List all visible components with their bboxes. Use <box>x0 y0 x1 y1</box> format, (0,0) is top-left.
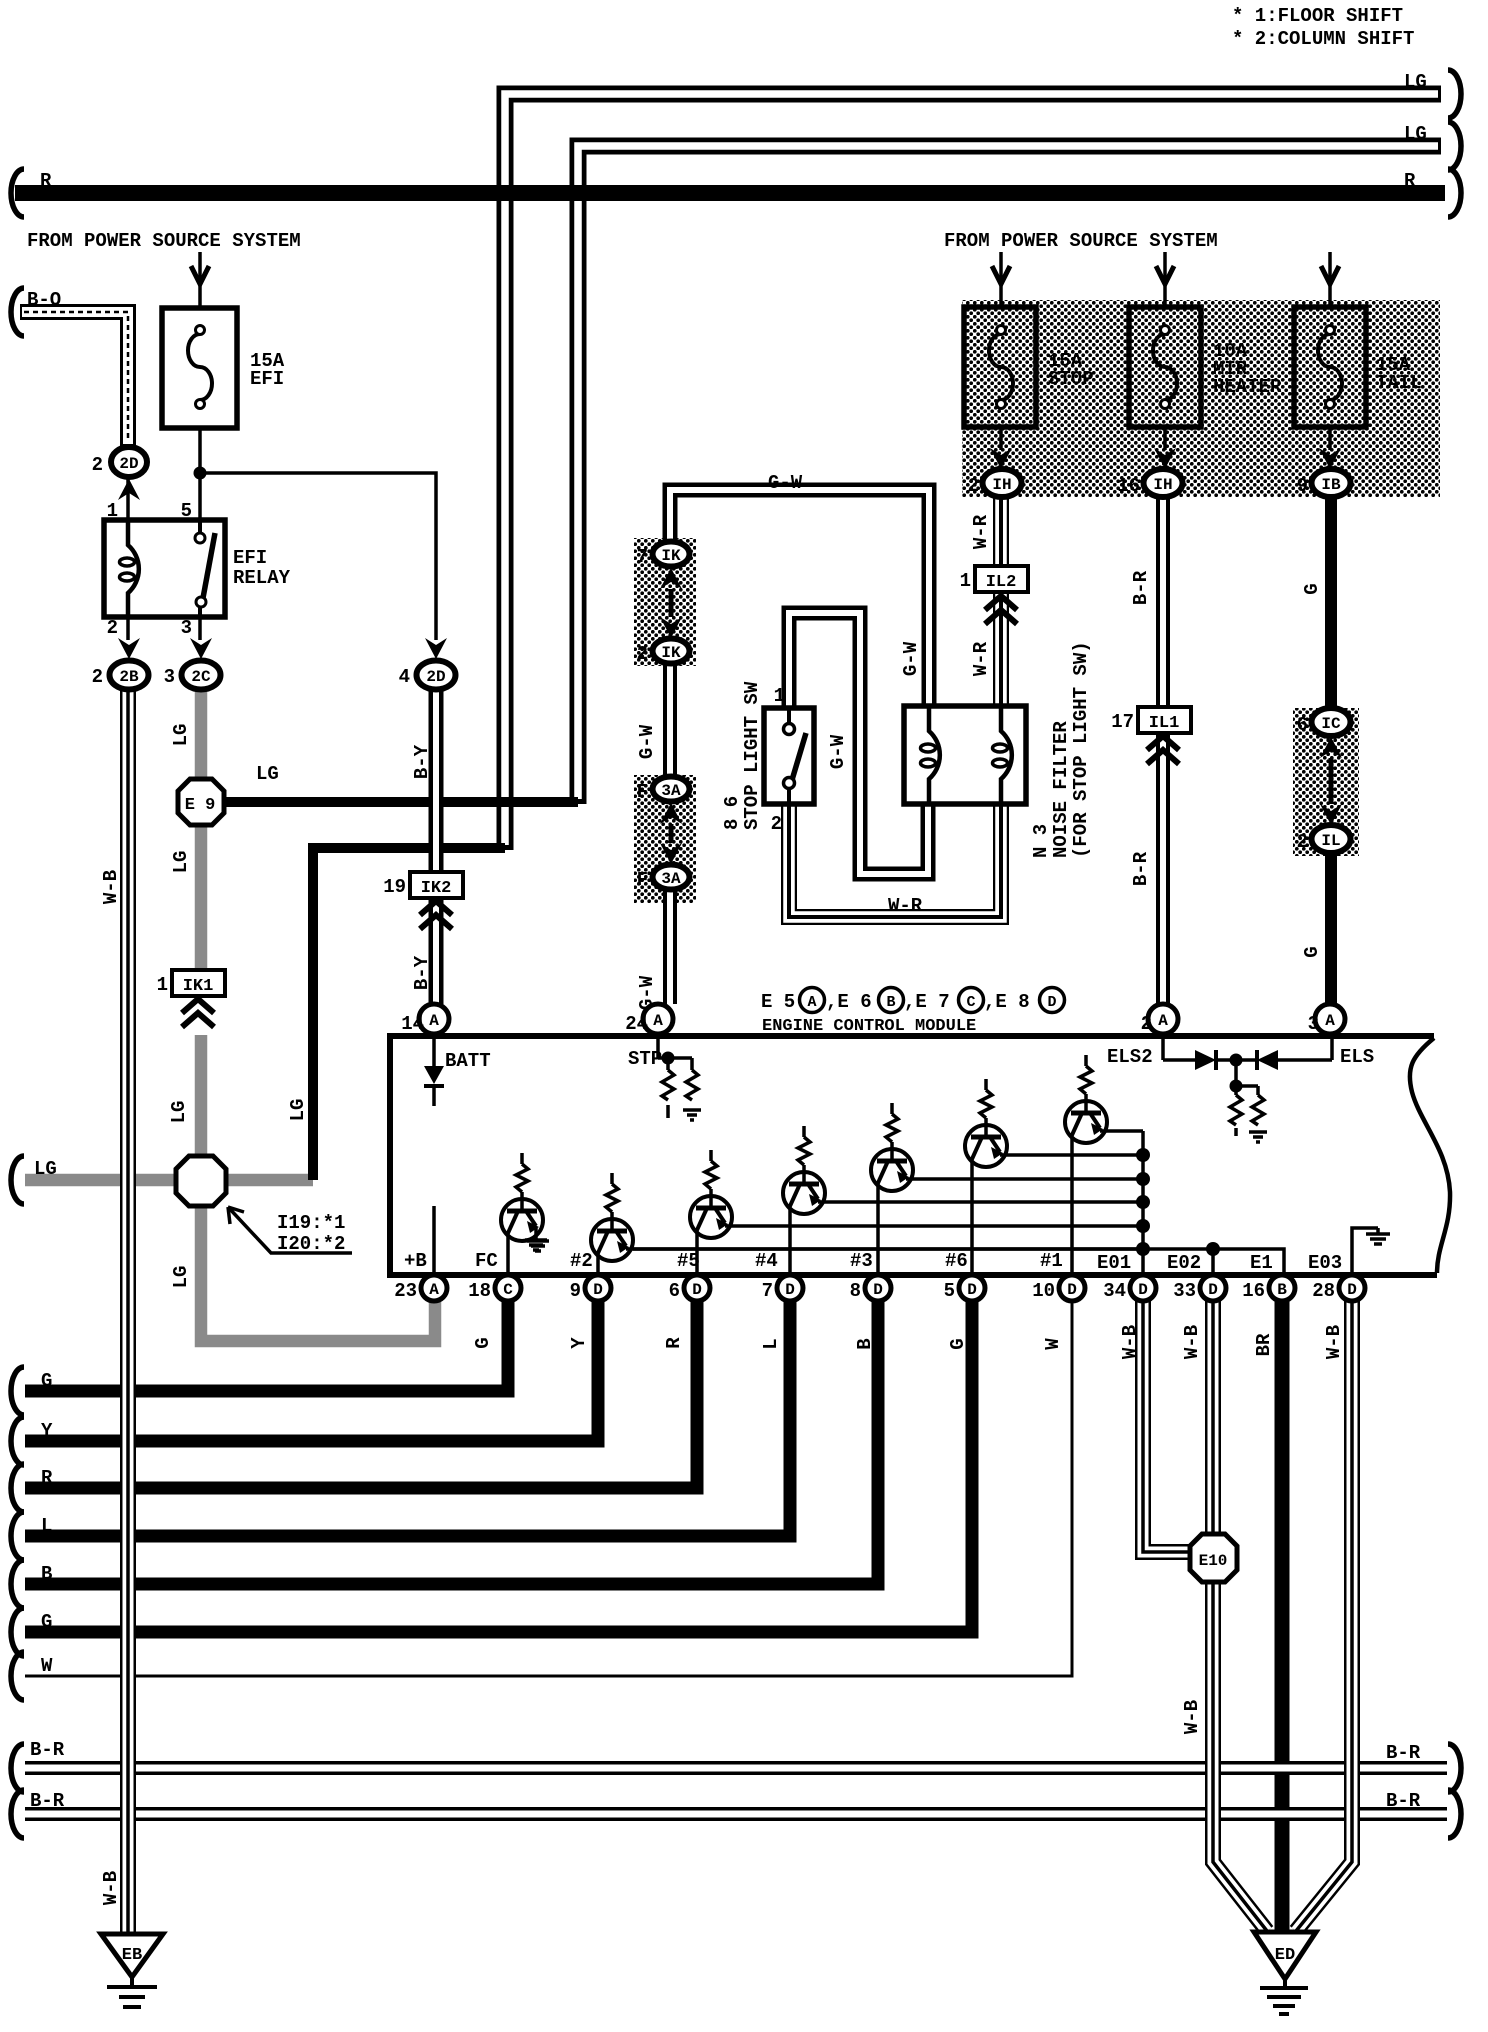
svg-text:8: 8 <box>850 1280 861 1302</box>
svg-text:B-R: B-R <box>1386 1790 1421 1812</box>
svg-text:G: G <box>1301 946 1323 957</box>
svg-text:L: L <box>760 1338 782 1349</box>
svg-text:2B: 2B <box>119 668 139 686</box>
svg-text:ELS: ELS <box>1340 1046 1374 1068</box>
svg-text:G-W: G-W <box>900 641 922 676</box>
svg-text:IL1: IL1 <box>1149 714 1180 733</box>
svg-text:W-B: W-B <box>100 1871 122 1905</box>
svg-text:A: A <box>1325 1012 1335 1030</box>
svg-text:E 5: E 5 <box>761 991 795 1013</box>
svg-text:F: F <box>637 781 648 803</box>
svg-text:28: 28 <box>1312 1280 1335 1302</box>
svg-text:LG: LG <box>170 851 192 874</box>
svg-text:2: 2 <box>637 643 648 665</box>
svg-text:LG: LG <box>1404 123 1427 145</box>
svg-text:8 6: 8 6 <box>721 796 743 830</box>
svg-text:D: D <box>692 1281 702 1299</box>
svg-text:R: R <box>663 1337 685 1349</box>
svg-text:W-R: W-R <box>888 895 923 917</box>
svg-text:B-R: B-R <box>1130 570 1152 605</box>
svg-text:* 1:FLOOR SHIFT: * 1:FLOOR SHIFT <box>1232 5 1403 27</box>
svg-text:E03: E03 <box>1308 1252 1342 1274</box>
svg-text:STP: STP <box>628 1048 662 1070</box>
svg-text:W-R: W-R <box>970 514 992 549</box>
svg-text:#4: #4 <box>755 1250 778 1272</box>
svg-text:#2: #2 <box>570 1250 593 1272</box>
svg-text:G-W: G-W <box>636 724 658 759</box>
svg-text:4: 4 <box>399 666 410 688</box>
svg-text:#6: #6 <box>945 1250 968 1272</box>
svg-text:2D: 2D <box>426 668 445 686</box>
svg-text:LG: LG <box>170 724 192 747</box>
svg-text:B: B <box>41 1563 52 1585</box>
svg-text:,E 7: ,E 7 <box>904 991 950 1013</box>
svg-text:E 9: E 9 <box>185 796 216 815</box>
svg-text:#5: #5 <box>677 1250 700 1272</box>
svg-text:C: C <box>503 1281 513 1299</box>
svg-text:3: 3 <box>181 617 192 639</box>
svg-text:2: 2 <box>107 617 118 639</box>
svg-text:B-Y: B-Y <box>411 744 433 779</box>
svg-text:1: 1 <box>774 685 785 707</box>
svg-text:A: A <box>807 994 816 1011</box>
svg-text:IB: IB <box>1321 476 1341 494</box>
svg-text:LG: LG <box>1404 71 1427 93</box>
svg-text:Y: Y <box>41 1420 53 1442</box>
svg-text:B-Y: B-Y <box>411 955 433 990</box>
svg-text:B-R: B-R <box>30 1790 65 1812</box>
svg-text:STOP LIGHT SW: STOP LIGHT SW <box>741 681 763 830</box>
svg-text:A: A <box>653 1012 663 1030</box>
svg-text:B: B <box>886 994 895 1011</box>
svg-text:1: 1 <box>107 500 118 522</box>
svg-text:LG: LG <box>256 763 279 785</box>
svg-text:E02: E02 <box>1167 1252 1201 1274</box>
svg-text:W-B: W-B <box>1181 1700 1203 1734</box>
svg-text:B-R: B-R <box>1386 1742 1421 1764</box>
svg-text:16: 16 <box>1117 475 1140 497</box>
svg-text:IH: IH <box>1153 476 1172 494</box>
svg-text:L: L <box>41 1515 52 1537</box>
svg-text:E01: E01 <box>1097 1252 1131 1274</box>
svg-text:1: 1 <box>960 570 971 592</box>
svg-text:A: A <box>429 1012 439 1030</box>
svg-text:5: 5 <box>181 500 192 522</box>
svg-text:14: 14 <box>401 1013 424 1035</box>
svg-text:IK2: IK2 <box>421 879 452 898</box>
svg-text:3: 3 <box>164 666 175 688</box>
svg-text:B-O: B-O <box>27 289 61 311</box>
svg-text:G-W: G-W <box>827 734 849 769</box>
svg-text:B: B <box>854 1338 876 1349</box>
svg-text:24: 24 <box>625 1013 648 1035</box>
svg-text:6: 6 <box>1297 714 1308 736</box>
svg-text:34: 34 <box>1103 1280 1126 1302</box>
svg-text:G-W: G-W <box>636 975 658 1010</box>
svg-text:FROM POWER SOURCE SYSTEM: FROM POWER SOURCE SYSTEM <box>27 230 301 252</box>
svg-text:D: D <box>1347 1281 1357 1299</box>
svg-text:STOP: STOP <box>1048 368 1094 390</box>
svg-text:W-B: W-B <box>1181 1325 1203 1359</box>
svg-text:(FOR STOP LIGHT SW): (FOR STOP LIGHT SW) <box>1070 641 1092 858</box>
svg-text:3A: 3A <box>661 782 681 800</box>
svg-text:2: 2 <box>1297 831 1308 853</box>
svg-text:EFI: EFI <box>250 368 284 390</box>
svg-text:17: 17 <box>1111 711 1134 733</box>
svg-text:* 2:COLUMN SHIFT: * 2:COLUMN SHIFT <box>1232 28 1414 50</box>
svg-text:R: R <box>41 1467 53 1489</box>
svg-text:G: G <box>472 1337 494 1348</box>
svg-text:9: 9 <box>570 1280 581 1302</box>
svg-text:2: 2 <box>92 454 103 476</box>
svg-text:LG: LG <box>170 1266 192 1289</box>
svg-text:A: A <box>429 1281 439 1299</box>
svg-text:B: B <box>1277 1281 1287 1299</box>
svg-text:Y: Y <box>568 1337 590 1349</box>
svg-text:LG: LG <box>168 1101 190 1124</box>
svg-text:D: D <box>785 1281 795 1299</box>
svg-text:IL2: IL2 <box>986 573 1017 592</box>
svg-text:2D: 2D <box>119 455 138 473</box>
svg-text:23: 23 <box>394 1280 417 1302</box>
svg-text:10: 10 <box>1032 1280 1055 1302</box>
svg-text:#3: #3 <box>850 1250 873 1272</box>
svg-text:BATT: BATT <box>445 1050 491 1072</box>
svg-text:W-R: W-R <box>970 641 992 676</box>
svg-text:B-R: B-R <box>30 1739 65 1761</box>
svg-text:RELAY: RELAY <box>233 567 291 589</box>
svg-text:TAIL: TAIL <box>1376 372 1422 394</box>
svg-text:W-B: W-B <box>1323 1325 1345 1359</box>
svg-text:IK: IK <box>661 547 681 565</box>
svg-text:G: G <box>1301 583 1323 594</box>
svg-text:A: A <box>1158 1012 1168 1030</box>
svg-text:G: G <box>947 1338 969 1349</box>
svg-text:#1: #1 <box>1040 1250 1063 1272</box>
svg-text:16: 16 <box>1242 1280 1265 1302</box>
svg-text:D: D <box>1067 1281 1077 1299</box>
svg-text:N 3: N 3 <box>1030 824 1052 858</box>
svg-text:ED: ED <box>1275 1946 1295 1965</box>
svg-text:G: G <box>41 1370 52 1392</box>
svg-text:W: W <box>1042 1338 1064 1350</box>
svg-text:2: 2 <box>92 666 103 688</box>
svg-text:B-R: B-R <box>1130 851 1152 886</box>
svg-text:,E 8: ,E 8 <box>984 991 1030 1013</box>
svg-text:EFI: EFI <box>233 547 267 569</box>
svg-text:3: 3 <box>1308 1013 1319 1035</box>
svg-text:+B: +B <box>404 1250 427 1272</box>
svg-text:C: C <box>966 994 975 1011</box>
svg-text:5: 5 <box>944 1280 955 1302</box>
svg-text:R: R <box>40 170 52 192</box>
svg-text:7: 7 <box>762 1280 773 1302</box>
svg-text:I20:*2: I20:*2 <box>277 1233 345 1255</box>
svg-text:IC: IC <box>1321 715 1341 733</box>
svg-text:2: 2 <box>771 813 782 835</box>
svg-text:2C: 2C <box>191 668 211 686</box>
svg-text:33: 33 <box>1173 1280 1196 1302</box>
svg-text:W-B: W-B <box>1119 1325 1141 1359</box>
svg-text:FC: FC <box>475 1250 498 1272</box>
svg-text:1: 1 <box>157 974 168 996</box>
svg-text:D: D <box>593 1281 603 1299</box>
svg-text:IH: IH <box>992 476 1011 494</box>
svg-text:,E 6: ,E 6 <box>826 991 872 1013</box>
svg-text:BR: BR <box>1253 1333 1275 1356</box>
svg-text:19: 19 <box>383 876 406 898</box>
svg-text:D: D <box>1138 1281 1148 1299</box>
svg-text:ENGINE CONTROL MODULE: ENGINE CONTROL MODULE <box>762 1017 976 1036</box>
svg-text:LG: LG <box>287 1099 309 1122</box>
svg-text:18: 18 <box>468 1280 491 1302</box>
svg-text:G-W: G-W <box>768 472 803 494</box>
svg-text:6: 6 <box>669 1280 680 1302</box>
svg-text:HEATER: HEATER <box>1213 376 1282 398</box>
svg-text:E10: E10 <box>1199 1552 1228 1570</box>
svg-text:2: 2 <box>1141 1013 1152 1035</box>
svg-text:2: 2 <box>968 475 979 497</box>
svg-text:LG: LG <box>34 1158 57 1180</box>
svg-text:D: D <box>1208 1281 1218 1299</box>
svg-text:IK1: IK1 <box>183 977 214 996</box>
svg-text:7: 7 <box>637 546 648 568</box>
svg-text:R: R <box>1404 170 1416 192</box>
svg-text:IK: IK <box>661 644 681 662</box>
svg-text:D: D <box>873 1281 883 1299</box>
svg-text:D: D <box>967 1281 977 1299</box>
svg-text:W-B: W-B <box>100 870 122 904</box>
svg-text:G: G <box>41 1611 52 1633</box>
svg-text:E1: E1 <box>1250 1252 1273 1274</box>
svg-text:3A: 3A <box>661 870 681 888</box>
svg-text:I19:*1: I19:*1 <box>277 1212 345 1234</box>
svg-text:FROM POWER SOURCE SYSTEM: FROM POWER SOURCE SYSTEM <box>944 230 1218 252</box>
svg-text:F: F <box>637 869 648 891</box>
svg-text:W: W <box>41 1655 53 1677</box>
svg-text:9: 9 <box>1297 475 1308 497</box>
svg-text:EB: EB <box>122 1946 142 1965</box>
svg-text:NOISE FILTER: NOISE FILTER <box>1050 721 1072 858</box>
svg-text:IL: IL <box>1321 832 1340 850</box>
svg-text:ELS2: ELS2 <box>1107 1046 1153 1068</box>
svg-text:D: D <box>1047 994 1056 1011</box>
